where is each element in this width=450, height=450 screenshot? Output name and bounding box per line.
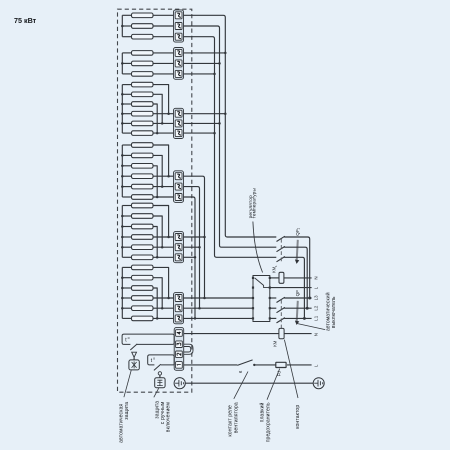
junction EK6 rows 2/5 (161, 307, 164, 310)
wire group EK3 phase 3 tap (184, 132, 215, 134)
wire EK3 row 2 down to row 5 (153, 94, 162, 123)
wire fuse FU to terminal L (287, 364, 312, 366)
manual-reset cutout SK2 reset box (155, 378, 165, 388)
junction EK3 phase 3 on bus A3 (213, 132, 216, 135)
thermal cutout SK1 trip arrow (132, 352, 137, 357)
svg-text:QF: QF (295, 290, 300, 297)
svg-text:L1: L1 (314, 315, 319, 321)
wire EK6 row 5 to terminal (153, 307, 174, 309)
heating element EK5.2 (122, 214, 153, 219)
heating element EK6.2 (122, 275, 153, 280)
svg-text:вентилятора: вентилятора (233, 402, 239, 433)
junction EK2 phase 2 on bus A2 (218, 62, 221, 65)
wire group EK2 phase 2 tap (184, 62, 220, 64)
junction on EK5 star bus row 5 (121, 246, 124, 249)
wire group EK4 phase 3 to bus B3 (184, 197, 196, 318)
terminal block X1 (174, 10, 184, 42)
junction on EK5 star bus row 2 (121, 215, 124, 218)
junction on EK6 star bus row 2 (121, 276, 124, 279)
wire EK4 row 6 to terminal (153, 196, 174, 198)
wire group EK6 phase 1 to regulator pin 3 (184, 297, 254, 299)
svg-text:L3: L3 (314, 295, 319, 301)
wire enclosure earth to external earth (185, 382, 313, 384)
wire group EK2 phase 3 tap (184, 73, 215, 75)
heating element EK6.5 (122, 306, 153, 311)
wire EK2 row 2 to terminal (153, 62, 174, 64)
heating element EK6.1 (122, 265, 153, 270)
junction on EK4 star bus row 4 (121, 175, 124, 178)
callout line to automatic protection label (124, 370, 131, 397)
heating element EK6.6 (122, 316, 153, 321)
junction on EK6 star bus row 5 (121, 307, 124, 310)
junction on EK3 star bus row 5 (121, 122, 124, 125)
wire EK5 row 3 down to row 6 (153, 227, 157, 258)
svg-text:К: К (238, 370, 243, 373)
manual-reset cutout SK2 break contact (154, 364, 161, 370)
heating element EK2.1 (122, 51, 153, 56)
star-point bus of group EK3 (121, 85, 123, 134)
terminal block X7 (174, 328, 184, 371)
heating element EK5.6 (122, 255, 153, 260)
circuit breaker QF1 pole 2 contact (277, 246, 285, 251)
wire EK6 row 1 down to row 4 (153, 267, 169, 298)
junction EK3 phase 1 on bus A1 (224, 112, 227, 115)
thermal cutout SK1 break contact (130, 344, 137, 350)
svg-text:N: N (314, 333, 319, 336)
heating element EK1.2 (122, 24, 153, 29)
junction QF1 pole 2 on phase line (306, 307, 309, 310)
heating element EK6.3 (122, 286, 153, 291)
contactor coil KM1 (279, 272, 284, 283)
star-point bus of group EK4 (121, 145, 123, 197)
wire group EK4 phase 2 to bus B2 (184, 187, 200, 309)
heating element EK5.5 (122, 245, 153, 250)
heating element EK3.2 (122, 92, 153, 97)
heating element EK3.4 (122, 111, 153, 116)
heating element EK4.3 (122, 164, 153, 169)
wire EK3 row 4 to terminal (153, 113, 174, 115)
contactor KM1 reference label (272, 265, 278, 273)
wire EK2 row 3 to terminal (153, 73, 174, 75)
wire EK4 row 1 down to row 4 (153, 145, 169, 176)
junction QF1 pole 3 on phase line (303, 317, 306, 320)
heating element EK5.1 (122, 203, 153, 208)
junction EK3 rows 3/6 (156, 132, 159, 135)
terminal block X6 (174, 293, 184, 324)
svg-text:включением: включением (165, 402, 171, 433)
fan contactor coil KM (279, 328, 284, 338)
fan relay contact K (237, 360, 255, 366)
wire EK2 row 1 to terminal (153, 52, 174, 54)
wire regulator pin 2 to terminal L (270, 287, 312, 289)
wire EK5 row 4 to terminal (153, 236, 174, 238)
wire regulator pin 1 to contactor coil KM1 (270, 277, 279, 279)
wire regulator pin 5 to QF pole 3 (270, 317, 277, 319)
heating element EK2.3 (122, 72, 153, 77)
junction on EK6 star bus row 3 (121, 287, 124, 290)
callout line to regulator (253, 222, 263, 273)
junction EK2 phase 3 on bus A3 (213, 73, 216, 76)
wire EK3 row 5 to terminal (153, 122, 174, 124)
wire actuator to reset box (159, 375, 161, 378)
wire group EK1 phase 1 to bus A1 (184, 15, 277, 237)
wire QF pole 1 output to terminal L3 (284, 297, 311, 299)
junction EK5 phase 3 on bus B3 (194, 256, 197, 259)
junction on EK4 star bus row 5 (121, 185, 124, 188)
circuit breaker QF1 pole 1 contact (277, 236, 285, 241)
svg-text:защита: защита (124, 402, 130, 420)
wire group EK5 phase 3 tap (184, 256, 196, 258)
junction EK5 phase 1 on bus B1 (203, 236, 206, 239)
wire group EK3 phase 2 tap (184, 122, 220, 124)
wire group EK1 phase 3 to bus A3 (184, 37, 277, 258)
wire EK1 row 2 to terminal (153, 25, 174, 27)
svg-text:N: N (314, 276, 319, 279)
jumper between X7 terminals 3 and 2 (184, 344, 193, 354)
wire X7 terminal 4 to contactor coil KM (N line) (184, 333, 279, 335)
junction EK6 rows 3/6 (156, 317, 159, 320)
manual-reset cutout SK2 sensor capsule (148, 355, 175, 365)
thermal cutout SK1 sensor capsule (122, 334, 174, 344)
junction on EK4 star bus row 2 (121, 154, 124, 157)
wire EK5 row 1 down to row 4 (153, 206, 169, 238)
callout line to breaker QF (298, 324, 326, 330)
heating element EK4.5 (122, 184, 153, 189)
wire EK5 row 5 to terminal (153, 246, 174, 248)
wire contact K to fuse FU (254, 364, 276, 366)
heating element EK3.3 (122, 102, 153, 107)
junction EK6 rows 1/4 (167, 297, 170, 300)
wire group EK5 phase 2 tap (184, 246, 200, 248)
breaker QF1 trip bar (295, 240, 299, 264)
wire QF pole 2 output to terminal L2 (284, 307, 311, 309)
junction EK5 rows 1/4 (167, 236, 170, 239)
junction EK4 rows 1/4 (167, 175, 170, 178)
junction EK2 phase 1 on bus A1 (224, 52, 227, 55)
svg-text:температуры: температуры (253, 188, 258, 219)
label temperature regulator (249, 188, 258, 219)
star-point bus of group EK5 (121, 206, 123, 258)
heating element EK4.4 (122, 174, 153, 179)
junction on EK1 star bus row 2 (121, 25, 124, 28)
circuit breaker QF1 pole 3 contact (277, 257, 285, 262)
heating element EK4.2 (122, 153, 153, 158)
heating element EK3.5 (122, 121, 153, 126)
wire regulator pin 4 to QF pole 2 (270, 307, 277, 309)
wire QF1 pole 2 output down to phase line (284, 247, 307, 308)
wire EK6 row 3 down to row 6 (153, 288, 157, 318)
star-point bus of group EK2 (121, 53, 123, 74)
label fan relay contact (228, 402, 240, 436)
protective earth symbol (supply side) (313, 378, 324, 389)
heating element EK4.6 (122, 195, 153, 200)
svg-text:контактор: контактор (295, 405, 301, 429)
wire X7 terminal 1 to fan relay contact K (184, 364, 238, 366)
callout line to contactor label (284, 340, 298, 398)
wire EK4 row 5 to terminal (153, 186, 174, 188)
junction EK3 phase 2 on bus A2 (218, 122, 221, 125)
wire EK3 row 6 to terminal (153, 132, 174, 134)
svg-text:o: o (128, 336, 130, 340)
terminal block X5 (174, 232, 184, 263)
breaker QF1 linkage dashed line (280, 239, 282, 262)
junction on EK3 star bus row 4 (121, 112, 124, 115)
junction EK3 rows 1/4 (167, 112, 170, 115)
wire QF pole 3 output to terminal L1 (284, 317, 311, 319)
heater enclosure dashed boundary (118, 9, 192, 392)
junction EK5 rows 2/5 (161, 246, 164, 249)
junction on EK3 star bus row 3 (121, 103, 124, 106)
wire EK6 row 4 to terminal (153, 297, 174, 299)
heating element EK4.1 (122, 143, 153, 148)
svg-text:75 кВт: 75 кВт (14, 16, 37, 25)
junction bus B2 on regulator feed line (198, 307, 201, 310)
svg-text:1: 1 (297, 228, 301, 230)
junction on EK5 star bus row 4 (121, 236, 124, 239)
junction EK3 rows 2/5 (161, 122, 164, 125)
wire QF1 pole 1 output down to phase line (284, 237, 310, 298)
wire EK4 row 4 to terminal (153, 175, 174, 177)
label automatic circuit breaker (324, 292, 337, 331)
breaker QF linkage dashed line (280, 300, 282, 330)
junction on EK6 star bus row 4 (121, 297, 124, 300)
wire group EK6 phase 3 to regulator pin 5 (184, 317, 254, 319)
star-point bus of group EK6 (121, 267, 123, 318)
heating element EK1.3 (122, 34, 153, 39)
svg-text:КМ: КМ (272, 340, 277, 347)
junction EK4 rows 3/6 (156, 196, 159, 199)
wire EK6 row 6 to terminal (153, 317, 174, 319)
junction EK5 rows 3/6 (156, 256, 159, 259)
callout line to fan relay contact label (234, 372, 248, 399)
junction EK4 rows 2/5 (161, 185, 164, 188)
callout line to fuse label (267, 369, 280, 400)
wire EK5 row 2 down to row 5 (153, 216, 162, 247)
wire group EK4 phase 1 to bus B1 (184, 176, 205, 298)
svg-text:L2: L2 (314, 305, 319, 311)
wire group EK3 phase 1 tap (184, 113, 226, 115)
heating element EK5.4 (122, 235, 153, 240)
junction on EK2 star bus row 2 (121, 62, 124, 65)
temperature regulator unit A1 (252, 276, 271, 322)
thermal cutout SK1 release box (129, 360, 139, 370)
fuse FU (276, 362, 286, 367)
manual reset actuator circle (158, 372, 161, 375)
wire EK3 row 1 down to row 4 (153, 85, 169, 114)
terminal block X3 (174, 108, 184, 138)
junction EK5 phase 2 on bus B2 (198, 246, 201, 249)
svg-text:o: o (153, 357, 155, 361)
wire EK1 row 1 to terminal (153, 14, 174, 16)
wire EK5 row 6 to terminal (153, 256, 174, 258)
svg-text:выключатель: выключатель (331, 296, 337, 328)
heating element EK6.4 (122, 296, 153, 301)
heating element EK1.1 (122, 13, 153, 18)
wire KM coil to terminal N (284, 333, 312, 335)
heating element EK5.3 (122, 224, 153, 229)
junction on EK5 star bus row 3 (121, 225, 124, 228)
label automatic protection (119, 402, 131, 443)
circuit breaker QF pole 1 contact (277, 297, 285, 302)
terminal block X2 (174, 48, 184, 80)
junction on EK3 star bus row 2 (121, 93, 124, 96)
wire QF1 pole 3 output down to phase line (284, 257, 304, 318)
star-point bus of group EK1 (121, 15, 123, 36)
junction bus B3 on regulator feed line (194, 317, 197, 320)
wire EK6 row 2 down to row 5 (153, 278, 162, 309)
wire group EK5 phase 1 tap (184, 236, 205, 238)
heating element EK3.1 (122, 82, 153, 87)
heating element EK3.6 (122, 131, 153, 136)
callout line to manual protection label (154, 388, 159, 397)
terminal block X4 (174, 171, 184, 203)
wire EK1 row 3 to terminal (153, 36, 174, 38)
wire group EK2 phase 1 tap (184, 52, 226, 54)
label fuse (259, 402, 272, 442)
circuit breaker QF pole 3 contact (277, 318, 285, 323)
wire EK4 row 2 down to row 5 (153, 155, 162, 186)
circuit breaker QF pole 2 contact (277, 307, 285, 312)
junction QF1 pole 1 on phase line (308, 297, 311, 300)
wire trip arrow to release box (133, 357, 135, 360)
breaker QF trip bar (295, 301, 299, 325)
wire regulator pin 3 to QF pole 1 (270, 297, 277, 299)
protective earth symbol (enclosure) (174, 378, 185, 389)
junction on EK4 star bus row 3 (121, 165, 124, 168)
heating element EK2.2 (122, 61, 153, 66)
wire KM1 coil to terminal N (284, 277, 312, 279)
wire group EK6 phase 2 to regulator pin 4 (184, 307, 254, 309)
wire EK3 row 3 down to row 6 (153, 104, 157, 133)
svg-text:предохранитель: предохранитель (265, 402, 271, 442)
junction bus B1 on regulator feed line (203, 297, 206, 300)
wire group EK1 phase 2 to bus A2 (184, 26, 277, 247)
label protection with manual reset (154, 401, 171, 432)
breaker QF1 reference label (295, 228, 301, 236)
wire EK4 row 3 down to row 6 (153, 166, 157, 197)
